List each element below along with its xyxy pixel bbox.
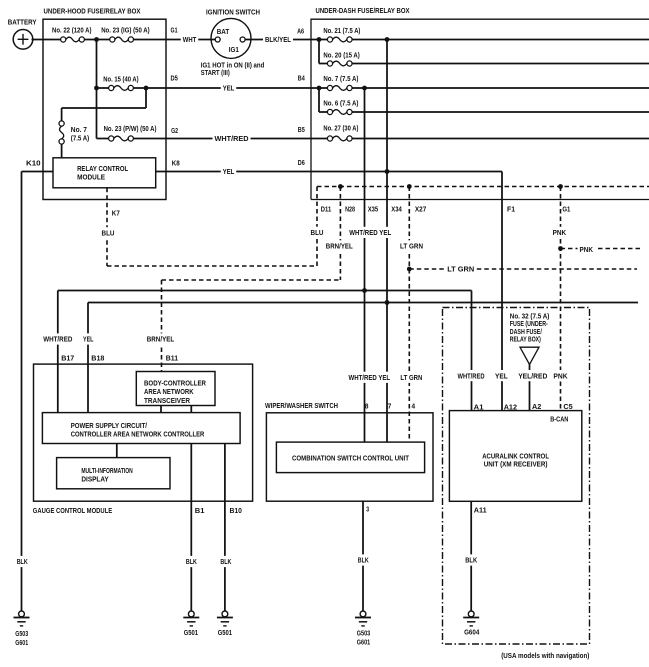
svg-text:POWER SUPPLY CIRCUIT/: POWER SUPPLY CIRCUIT/ [71,421,148,430]
svg-text:K7: K7 [112,208,120,217]
svg-text:G601: G601 [357,638,370,647]
svg-text:BLK/YEL: BLK/YEL [265,35,291,44]
svg-text:BATTERY: BATTERY [8,17,37,26]
svg-text:8: 8 [365,402,369,411]
svg-text:No. 6 (7.5 A): No. 6 (7.5 A) [323,99,358,108]
svg-text:RELAY BOX): RELAY BOX) [510,335,541,344]
svg-text:GAUGE CONTROL MODULE: GAUGE CONTROL MODULE [33,506,112,515]
svg-text:BLK: BLK [465,556,477,565]
svg-text:K10: K10 [26,158,41,167]
svg-text:A1: A1 [474,402,484,411]
svg-text:BAT: BAT [217,27,230,36]
svg-text:BLK: BLK [17,557,28,566]
svg-text:WHT/RED: WHT/RED [215,134,250,143]
svg-text:PNK: PNK [580,245,594,254]
svg-text:F1: F1 [507,205,515,214]
svg-text:UNDER-DASH FUSE/RELAY BOX: UNDER-DASH FUSE/RELAY BOX [316,6,410,15]
svg-text:LT GRN: LT GRN [400,373,422,382]
svg-text:WHT/RED: WHT/RED [43,335,73,344]
svg-text:BODY-CONTROLLER: BODY-CONTROLLER [144,378,206,387]
svg-text:D5: D5 [171,74,178,83]
svg-text:WHT/RED YEL: WHT/RED YEL [349,373,391,382]
svg-text:7: 7 [388,402,392,411]
svg-text:LT GRN: LT GRN [400,242,423,251]
svg-text:BLK: BLK [186,557,197,566]
svg-text:(7.5 A): (7.5 A) [71,133,90,142]
svg-text:YEL: YEL [83,335,94,344]
svg-text:IG1: IG1 [229,45,239,54]
svg-text:PNK: PNK [553,371,568,380]
svg-text:BRN/YEL: BRN/YEL [326,242,353,251]
svg-text:BLK: BLK [358,556,369,565]
svg-text:D6: D6 [298,158,305,167]
svg-text:CONTROLLER AREA NETWORK CONTRO: CONTROLLER AREA NETWORK CONTROLLER [71,430,205,439]
svg-text:COMBINATION SWITCH CONTROL UNI: COMBINATION SWITCH CONTROL UNIT [292,453,409,462]
svg-text:G503: G503 [15,629,28,638]
svg-text:BLU: BLU [102,229,115,238]
svg-text:G501: G501 [218,628,232,637]
svg-text:X27: X27 [415,205,426,214]
svg-text:G501: G501 [184,628,198,637]
svg-text:G1: G1 [171,26,178,35]
svg-text:B10: B10 [230,506,242,515]
svg-text:YEL/RED: YEL/RED [518,371,548,380]
svg-text:A6: A6 [297,27,304,36]
svg-text:No. 23 (IG) (50 A): No. 23 (IG) (50 A) [101,26,150,35]
svg-text:MULTI-INFORMATION: MULTI-INFORMATION [81,466,132,475]
svg-text:G503: G503 [357,629,370,638]
svg-text:No. 20 (15 A): No. 20 (15 A) [323,50,360,59]
svg-text:(USA models with navigation): (USA models with navigation) [501,651,590,660]
svg-text:TRANSCEIVER: TRANSCEIVER [144,396,190,405]
svg-text:X35: X35 [368,205,379,214]
svg-text:G1: G1 [562,205,570,214]
svg-text:No. 23 (P/W) (50 A): No. 23 (P/W) (50 A) [104,124,157,133]
svg-text:DISPLAY: DISPLAY [81,475,108,484]
svg-text:PNK: PNK [553,228,567,237]
svg-text:AREA NETWORK: AREA NETWORK [144,387,194,396]
svg-text:No. 22 (120 A): No. 22 (120 A) [52,26,92,35]
svg-text:B17: B17 [61,354,74,363]
svg-text:BRN/YEL: BRN/YEL [147,335,175,344]
svg-text:YEL: YEL [223,84,235,93]
svg-text:WIPER/WASHER SWITCH: WIPER/WASHER SWITCH [265,401,338,410]
svg-text:No. 27 (30 A): No. 27 (30 A) [323,124,358,133]
svg-text:C5: C5 [563,402,572,411]
svg-text:G2: G2 [171,126,178,135]
svg-text:A11: A11 [474,506,487,515]
svg-text:N28: N28 [345,205,355,214]
svg-text:K8: K8 [172,158,180,167]
svg-text:UNDER-HOOD FUSE/RELAY BOX: UNDER-HOOD FUSE/RELAY BOX [44,7,141,16]
svg-text:WHT/RED: WHT/RED [458,371,485,380]
svg-text:G604: G604 [464,628,480,637]
svg-text:UNIT (XM RECEIVER): UNIT (XM RECEIVER) [484,459,548,468]
svg-text:G601: G601 [15,638,28,647]
svg-text:A12: A12 [504,402,517,411]
svg-text:WHT: WHT [183,35,197,44]
svg-text:B-CAN: B-CAN [550,415,568,424]
svg-text:LT GRN: LT GRN [447,265,474,274]
svg-text:No. 15 (40 A): No. 15 (40 A) [103,75,139,84]
svg-text:X34: X34 [391,205,402,214]
svg-text:A2: A2 [532,402,541,411]
svg-text:B18: B18 [91,354,104,363]
svg-text:YEL: YEL [495,371,508,380]
svg-text:No. 21 (7.5 A): No. 21 (7.5 A) [323,26,360,35]
svg-text:B4: B4 [298,74,306,83]
svg-text:BLK: BLK [220,557,231,566]
svg-text:No. 7 (7.5 A): No. 7 (7.5 A) [323,74,358,83]
svg-text:BLU: BLU [311,228,324,237]
svg-text:IGNITION SWITCH: IGNITION SWITCH [206,8,260,17]
svg-text:B5: B5 [298,125,305,134]
svg-text:D11: D11 [321,205,331,214]
svg-text:WHT/RED YEL: WHT/RED YEL [349,228,391,237]
svg-text:3: 3 [366,505,369,514]
svg-text:START (III): START (III) [201,68,230,77]
svg-text:B11: B11 [166,354,178,363]
svg-text:MODULE: MODULE [77,173,105,182]
svg-text:YEL: YEL [223,167,235,176]
svg-text:B1: B1 [195,506,205,515]
